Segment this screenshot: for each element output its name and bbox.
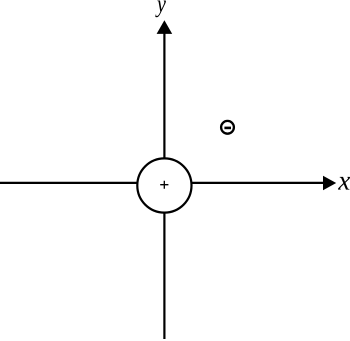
node y-axis arrowhead [157,20,173,34]
wire y-axis line [163,28,165,339]
node plus sign [160,181,168,189]
wire x-axis line [0,182,330,184]
node minus sign [224,127,231,130]
node negative charge circle [221,121,234,134]
node label x [338,177,350,190]
node x-axis arrowhead [323,176,336,191]
node label y [155,1,166,18]
node positive charge circle [137,158,191,212]
